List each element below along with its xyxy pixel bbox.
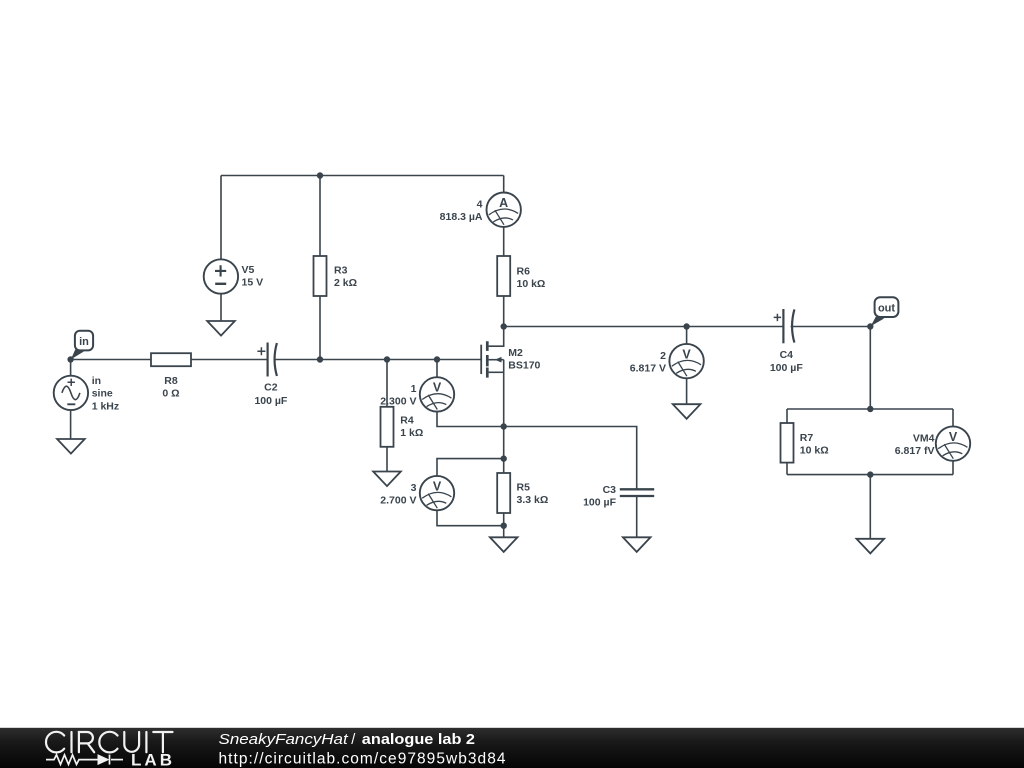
resistor R7 labels [800,432,829,457]
sine source labels [92,375,119,413]
resistor R4 ground wire [386,360,388,472]
wire VM4 bottom [952,461,954,475]
wire R3 bottom [319,296,321,360]
resistor R3 labels [334,265,357,290]
resistor R8 body [151,353,191,366]
node top rail R3 [317,172,323,178]
svg-text:R7: R7 [800,432,814,444]
svg-text:4: 4 [477,198,483,210]
resistor R8 labels [162,375,179,400]
svg-text:2 kΩ: 2 kΩ [334,277,357,289]
resistor R3 body [314,256,327,296]
svg-text:R5: R5 [517,482,531,494]
node flag out [871,297,899,326]
svg-text:C2: C2 [264,382,278,394]
wire R8 to C2 [191,359,268,361]
wire VM1 top [436,360,438,378]
wire VM2 to ground [686,378,688,404]
svg-text:10 kΩ: 10 kΩ [800,444,829,456]
svg-text:LAB: LAB [131,750,175,768]
node gate VM1 [434,356,440,362]
wire VM1 bottom [437,412,504,427]
node drain [501,323,507,329]
resistor R4 labels [400,415,423,440]
capacitor C3 labels [583,484,616,509]
ground below R4 [373,472,401,487]
svg-text:V: V [433,479,442,493]
svg-text:2.700 V: 2.700 V [380,494,416,506]
ground below C3 [623,537,651,552]
wire R7 top [786,409,788,423]
wire input node to R8 [71,359,151,361]
wire drain rail left [504,326,784,328]
resistor R4 body [381,407,394,447]
capacitor C3 [620,489,654,496]
svg-text:0 Ω: 0 Ω [162,388,179,400]
wire VM3 bottom [437,510,504,525]
wire M2 body [489,359,504,361]
node R5 bottom [501,523,507,529]
svg-text:in: in [92,375,101,387]
svg-text:sine: sine [92,388,113,400]
wire loop to ground [869,475,871,539]
voltmeter VM3 [420,476,454,510]
voltmeter VM3 labels [380,482,416,507]
ground below VM2 [673,404,701,419]
svg-text:SneakyFancyHat: SneakyFancyHat [219,732,349,748]
voltmeter VM1 labels [380,383,416,408]
svg-text:out: out [878,302,895,314]
resistor R6 body [497,256,510,296]
voltmeter VM4 [936,426,970,460]
wire source to ground [70,410,72,439]
mosfet M2 labels [508,347,540,372]
wire VM2 top [686,327,688,344]
svg-text:http://circuitlab.com/ce97895w: http://circuitlab.com/ce97895wb3d84 [219,751,506,768]
wire R6 bottom [503,296,505,327]
wire M2 source [489,371,504,373]
svg-text:1: 1 [411,383,417,395]
svg-text:818.3 µA: 818.3 µA [440,211,483,223]
svg-text:R8: R8 [164,375,178,387]
wire top rail [221,175,504,177]
node VM2 [683,323,689,329]
svg-text:100 µF: 100 µF [770,362,803,374]
logo diode triangle [98,754,110,765]
svg-text:3: 3 [411,482,417,494]
wire out node down [869,327,871,410]
ground below sine source [57,439,85,454]
resistor R7 body [781,423,794,463]
wire ammeter top [503,176,505,193]
voltage source V5 labels [242,264,264,289]
resistor R5 labels [517,482,549,507]
svg-text:V: V [433,381,442,395]
svg-text:1 kΩ: 1 kΩ [400,427,423,439]
node loop bottom [867,471,873,477]
wire source top [70,360,72,376]
svg-text:BS170: BS170 [508,360,540,372]
svg-text:1 kHz: 1 kHz [92,400,119,412]
sine source VIN [54,376,88,410]
svg-text:R4: R4 [400,415,414,427]
wire R3 top [319,176,321,257]
svg-text:V: V [949,430,958,444]
svg-text:V5: V5 [242,264,255,276]
svg-text:15 V: 15 V [242,277,264,289]
mosfet M2 [481,341,487,377]
svg-text:R6: R6 [517,266,531,278]
svg-text:M2: M2 [508,347,523,359]
node gate R3 [317,356,323,362]
capacitor C2 labels [254,382,287,407]
resistor R6 labels [517,266,546,291]
svg-text:2.300 V: 2.300 V [380,396,416,408]
mosfet M2 arrow [495,357,502,363]
wire M2 source down to R5 [503,360,505,473]
voltmeter VM4 labels [895,432,935,457]
svg-text:3.3 kΩ: 3.3 kΩ [517,494,549,506]
voltmeter VM2 labels [630,350,666,375]
node gate R4 [384,356,390,362]
wire V5 to ground [220,294,222,321]
node source VM3 top [501,455,507,461]
voltmeter VM2 [669,344,703,378]
wire loop top [787,408,953,410]
logo circuit squiggle [46,755,123,765]
svg-text:2: 2 [660,350,666,362]
svg-text:6.817 V: 6.817 V [630,362,666,374]
svg-text:C3: C3 [603,484,617,496]
node at input [67,356,73,362]
wire R7 bottom [786,463,788,475]
wire out rail right of C4 [791,326,871,328]
node loop top [867,406,873,412]
svg-text:100 µF: 100 µF [583,497,616,509]
svg-text:analogue lab 2: analogue lab 2 [362,732,475,748]
capacitor C4 labels [770,349,803,374]
svg-text:C4: C4 [780,349,794,361]
ground below R7 loop [857,539,885,554]
svg-text:10 kΩ: 10 kΩ [517,278,546,290]
wire ammeter to R6 [503,227,505,256]
wire C2 to gate [275,359,481,361]
ammeter AM4 labels [440,198,483,223]
node flag in [71,331,93,360]
wire loop bottom [787,474,953,476]
node out [867,323,873,329]
wire M2 drain [489,327,504,347]
wire C3 to ground [636,496,638,537]
svg-text:VM4: VM4 [913,432,935,444]
logo CIRCUIT wordmark [46,732,173,753]
voltage source V5 [204,259,238,293]
node source VM1 [501,423,507,429]
wire VM4 top [952,409,954,426]
wire V5 top [220,176,222,260]
svg-text:A: A [499,196,508,210]
footer bar [0,728,1024,768]
wire VM3 top [437,459,504,476]
ground below R5 [490,537,518,552]
capacitor C4 [774,309,795,343]
wire node to C3 [504,427,637,490]
wire R5 to ground [503,513,505,537]
voltmeter VM1 [420,377,454,411]
svg-text:in: in [79,336,89,348]
ground below V5 [207,321,235,336]
ammeter AM4 [487,193,521,227]
svg-text:6.817 fV: 6.817 fV [895,445,935,457]
resistor R5 body [497,473,510,513]
svg-text:V: V [682,347,691,361]
svg-text:100 µF: 100 µF [254,395,287,407]
svg-text:R3: R3 [334,265,348,277]
capacitor C2 [257,343,277,377]
